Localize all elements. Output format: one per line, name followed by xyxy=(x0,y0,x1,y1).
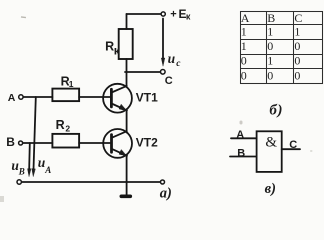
svg-text:B: B xyxy=(18,167,25,177)
svg-text:1: 1 xyxy=(69,79,74,89)
svg-text:+: + xyxy=(170,9,176,21)
svg-text:B: B xyxy=(6,135,15,149)
svg-text:1: 1 xyxy=(294,25,300,39)
svg-text:в): в) xyxy=(265,181,276,197)
svg-text:A: A xyxy=(236,129,244,141)
svg-text:1: 1 xyxy=(267,54,273,68)
svg-text:A: A xyxy=(241,11,250,25)
svg-text:б): б) xyxy=(269,102,283,118)
svg-text:B: B xyxy=(267,11,275,25)
svg-text:1: 1 xyxy=(267,25,273,39)
svg-text:B: B xyxy=(237,147,245,159)
svg-text:A: A xyxy=(44,165,51,175)
svg-text:а): а) xyxy=(160,186,172,202)
svg-text:A: A xyxy=(8,92,16,104)
svg-text:VT2: VT2 xyxy=(136,136,158,150)
svg-text:0: 0 xyxy=(267,68,273,82)
svg-text:0: 0 xyxy=(241,68,247,82)
svg-text:0: 0 xyxy=(294,68,300,82)
svg-text:2: 2 xyxy=(65,124,70,134)
svg-text:u: u xyxy=(168,51,176,66)
svg-text:VT1: VT1 xyxy=(136,90,158,104)
svg-text:1: 1 xyxy=(241,39,247,53)
svg-text:0: 0 xyxy=(241,54,247,68)
svg-text:к: к xyxy=(186,12,191,22)
svg-text:0: 0 xyxy=(294,39,300,53)
svg-text:к: к xyxy=(114,44,121,58)
svg-text:R: R xyxy=(56,118,65,132)
svg-text:C: C xyxy=(294,11,302,25)
svg-text:0: 0 xyxy=(294,54,300,68)
svg-text:&: & xyxy=(265,135,277,151)
svg-text:0: 0 xyxy=(267,39,273,53)
svg-text:C: C xyxy=(289,139,297,151)
svg-text:C: C xyxy=(165,75,173,87)
svg-text:1: 1 xyxy=(241,25,247,39)
